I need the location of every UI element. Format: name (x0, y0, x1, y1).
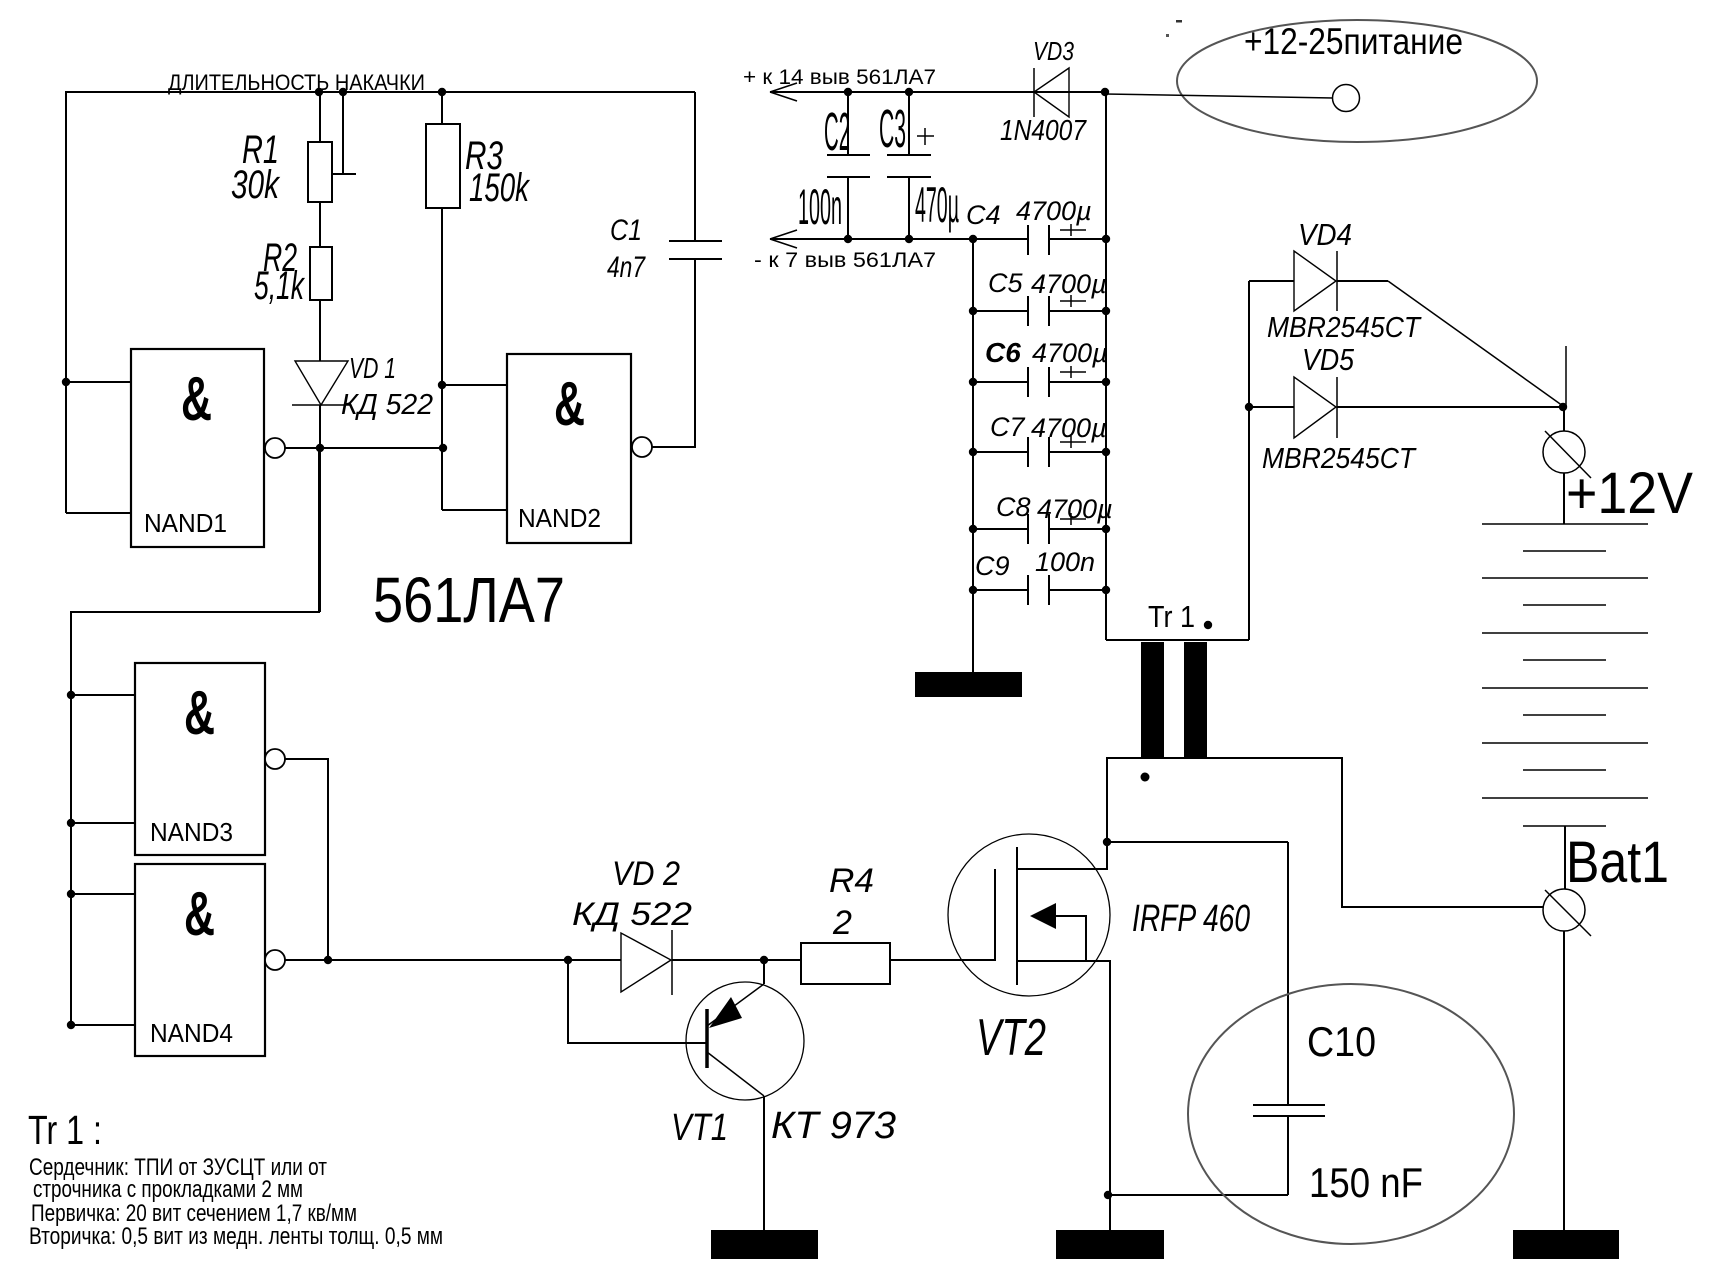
svg-text:C10: C10 (1307, 1018, 1376, 1065)
svg-text:КД 522: КД 522 (341, 389, 433, 421)
svg-text:4700µ: 4700µ (1031, 413, 1107, 443)
svg-text:NAND1: NAND1 (144, 508, 227, 538)
capacitor C2 (798, 88, 870, 243)
svg-text:КД 522: КД 522 (572, 896, 692, 932)
NAND gate NAND1 (131, 349, 285, 547)
svg-text:строчника с прокладками 2 мм: строчника с прокладками 2 мм (33, 1176, 303, 1203)
ground VT1 (711, 1230, 818, 1259)
capacitor C9 (969, 547, 1110, 605)
svg-text:150 nF: 150 nF (1309, 1159, 1423, 1206)
wire negative rail (969, 235, 1106, 243)
svg-text:VD 1: VD 1 (349, 353, 396, 385)
wire NAND1 inputs (62, 378, 131, 513)
wire VT2 drain node (1103, 838, 1288, 846)
capacitor C5 (969, 268, 1110, 326)
svg-text:100n: 100n (1035, 547, 1095, 577)
svg-text:NAND4: NAND4 (150, 1018, 233, 1048)
ground Bat1 (1513, 1230, 1619, 1259)
svg-text:30k: 30k (231, 163, 280, 207)
capacitor C4 (966, 196, 1110, 255)
svg-text:5,1k: 5,1k (254, 264, 305, 308)
wire +12V node stub (1565, 346, 1567, 406)
wire NAND2 inputs (438, 381, 507, 510)
wire NAND3 inputs (67, 691, 135, 827)
svg-text:561ЛА7: 561ЛА7 (373, 564, 565, 636)
svg-text:NAND2: NAND2 (518, 503, 601, 533)
svg-text:&: & (184, 880, 215, 949)
capacitor C10 (1253, 842, 1423, 1206)
NAND gate NAND4 (135, 864, 285, 1056)
svg-text:C9: C9 (975, 551, 1010, 581)
svg-text:IRFP 460: IRFP 460 (1132, 898, 1250, 940)
connector +12V (1543, 407, 1693, 526)
diode VD2 (572, 855, 801, 995)
wire NAND2 output to C1 (652, 259, 695, 447)
wire NAND4 output to VD2 (285, 956, 621, 964)
transistor VT1 (568, 960, 896, 1230)
svg-text:C6: C6 (985, 337, 1021, 368)
svg-text:4700µ: 4700µ (1031, 269, 1107, 299)
svg-text:4700µ: 4700µ (1016, 196, 1092, 226)
capacitor C8 (969, 492, 1113, 544)
svg-text:C8: C8 (996, 492, 1031, 522)
svg-text:VT2: VT2 (976, 1009, 1046, 1067)
potentiometer wiper of R1 (332, 92, 356, 174)
note Tr1 winding details (28, 1107, 443, 1250)
resistor R4 (801, 862, 995, 984)
power entry ellipse +12-25питание (1101, 20, 1537, 142)
capacitor C3 (879, 88, 959, 243)
wire feedback to NAND3/NAND4 (71, 448, 319, 1025)
wire NAND4 inputs (67, 890, 135, 1029)
svg-text:4n7: 4n7 (607, 251, 646, 284)
ellipse around C10 (1188, 984, 1514, 1244)
svg-text:&: & (554, 370, 585, 439)
ground VT2 (1056, 1230, 1164, 1259)
capacitor C6 (969, 337, 1110, 397)
resistor R2 (254, 236, 332, 361)
wire positive vertical bus (1105, 92, 1107, 640)
svg-text:MBR2545CT: MBR2545CT (1267, 312, 1422, 344)
svg-text:4700µ: 4700µ (1032, 338, 1108, 368)
wire NAND3 output (285, 759, 328, 960)
svg-text:Вторичка: 0,5 вит из медн. лен: Вторичка: 0,5 вит из медн. ленты толщ. 0… (29, 1223, 443, 1250)
svg-text:470µ: 470µ (915, 177, 959, 233)
svg-text:Tr 1: Tr 1 (1148, 599, 1195, 634)
svg-text:&: & (184, 679, 215, 748)
wire top oscillator rail (66, 88, 695, 513)
resistor R1 (231, 92, 332, 247)
svg-text:&: & (181, 365, 212, 434)
svg-text:C5: C5 (988, 268, 1023, 298)
svg-text:КТ 973: КТ 973 (771, 1105, 896, 1147)
svg-text:MBR2545CT: MBR2545CT (1262, 443, 1417, 475)
svg-text:2: 2 (832, 904, 852, 942)
svg-text:VD5: VD5 (1302, 342, 1355, 377)
wire C10 bottom to source (1104, 1191, 1288, 1199)
svg-text:VD3: VD3 (1033, 36, 1074, 66)
svg-text:+12V: +12V (1566, 461, 1693, 526)
svg-text:+ к 14 выв 561ЛА7: + к 14 выв 561ЛА7 (743, 66, 936, 89)
capacitor C7 (969, 412, 1110, 467)
svg-text:C1: C1 (610, 214, 642, 247)
arrow to pin 7 of 561ЛА7 (754, 230, 1028, 272)
wire NAND1 output (285, 444, 447, 452)
svg-text:NAND3: NAND3 (150, 817, 233, 847)
diode VD1 (292, 353, 433, 612)
ground capacitor bank (915, 672, 1022, 697)
capacitor C1 (607, 92, 722, 284)
svg-text:4700µ: 4700µ (1037, 494, 1113, 524)
speck marks (1176, 20, 1182, 23)
battery Bat1 cells (1482, 524, 1669, 895)
wire rectifier input vertical (1245, 281, 1253, 640)
NAND gate NAND3 (135, 663, 285, 855)
svg-text:+12-25питание: +12-25питание (1244, 21, 1463, 62)
svg-text:VT1: VT1 (671, 1107, 728, 1149)
svg-text:C2: C2 (824, 102, 850, 162)
connector Bat1 (1543, 826, 1591, 1230)
MOSFET VT2 (948, 834, 1250, 1230)
svg-text:VD4: VD4 (1298, 217, 1352, 252)
arrow to pin 14 of 561ЛА7 (743, 66, 1034, 101)
wire negative vertical bus (972, 239, 974, 672)
NAND gate NAND2 (507, 354, 652, 543)
diode VD5 (1249, 342, 1567, 475)
diode VD4 (1249, 217, 1563, 406)
svg-text:R4: R4 (829, 862, 874, 900)
transformer Tr1 (1106, 599, 1543, 907)
svg-text:Bat1: Bat1 (1566, 830, 1669, 895)
svg-text:C4: C4 (966, 200, 1001, 230)
svg-text:C3: C3 (879, 99, 906, 159)
svg-text:100n: 100n (798, 179, 842, 235)
svg-text:Tr 1 :: Tr 1 : (28, 1107, 102, 1153)
resistor R3 (426, 92, 530, 510)
svg-text:VD 2: VD 2 (612, 855, 680, 893)
svg-text:150k: 150k (469, 166, 530, 210)
svg-text:C7: C7 (990, 412, 1025, 442)
svg-text:1N4007: 1N4007 (1000, 115, 1088, 147)
diode VD3 (1000, 36, 1105, 147)
svg-text:- к 7 выв 561ЛА7: - к 7 выв 561ЛА7 (754, 249, 936, 272)
